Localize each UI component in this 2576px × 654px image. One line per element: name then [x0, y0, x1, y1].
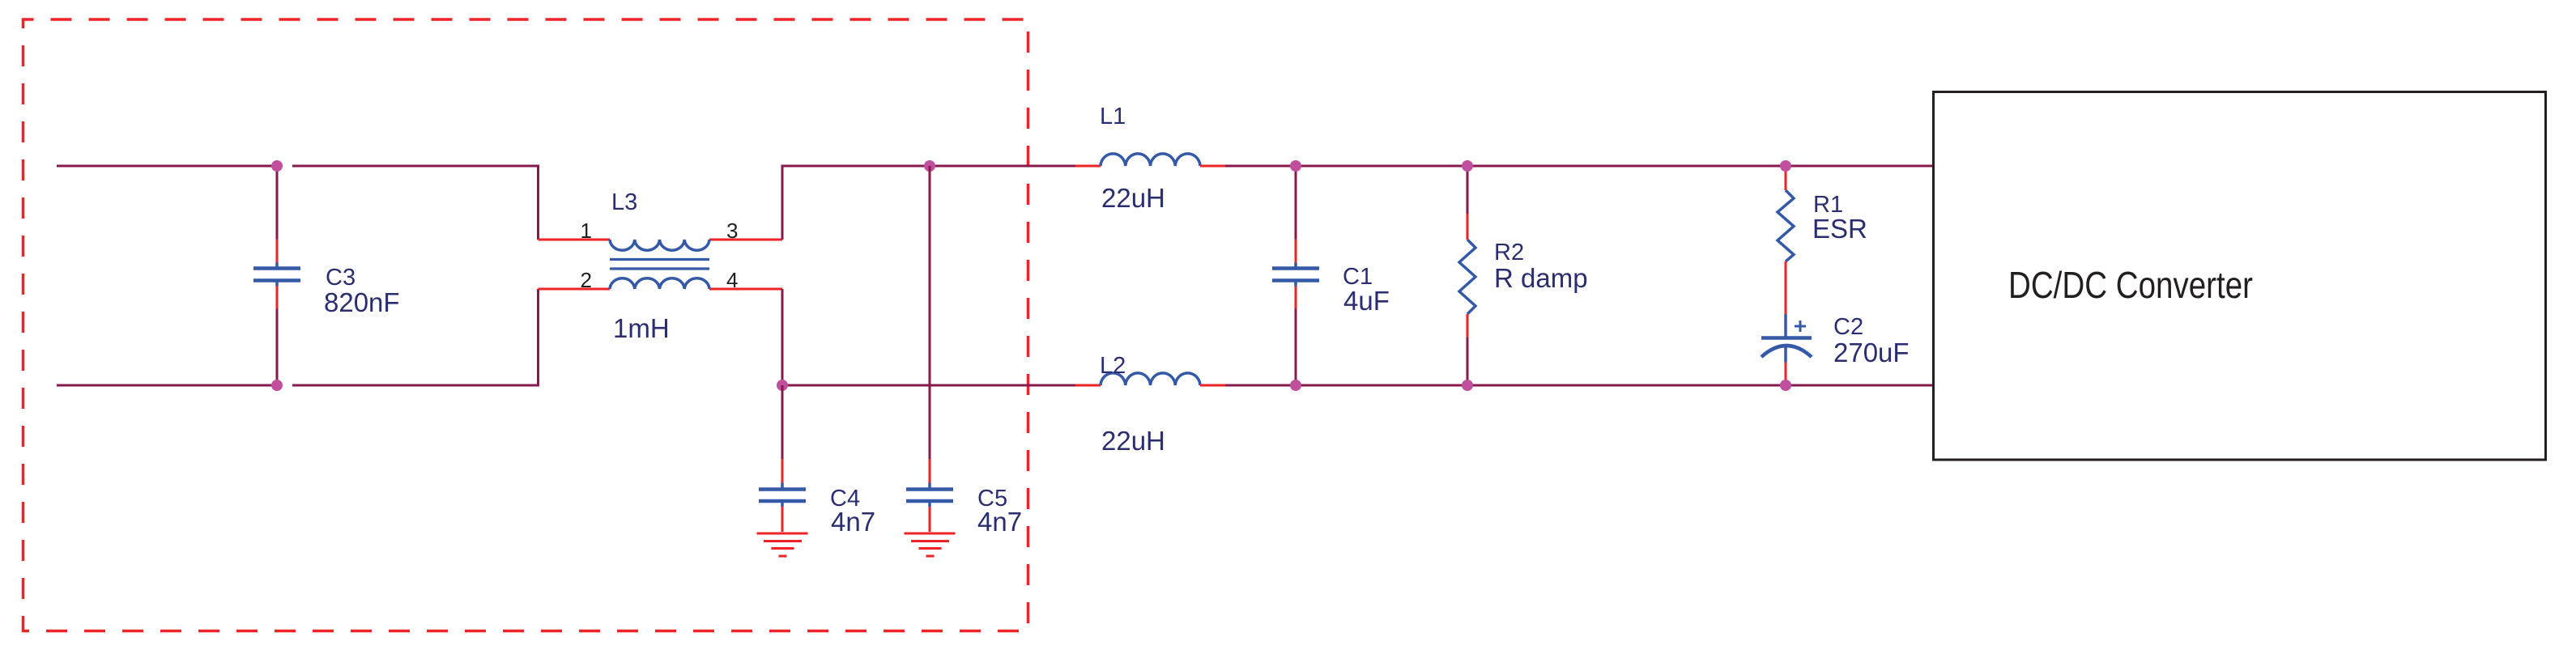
node: C3 top junction [271, 160, 283, 172]
node: R2 bottom junction [1462, 380, 1473, 391]
wire: bottom rail from L2 to DC/DC box [1225, 384, 1933, 387]
L3 bottom winding [610, 278, 709, 289]
L1 left pin wire [1075, 165, 1101, 168]
capacitor C2 (electrolytic) [1761, 314, 1812, 385]
wire: C1 top vertical [1295, 166, 1297, 240]
svg-text:4uF: 4uF [1343, 286, 1390, 316]
svg-text:820nF: 820nF [324, 287, 400, 317]
wire: R2 bottom vertical [1467, 338, 1469, 385]
capacitor C4 [759, 459, 806, 532]
node: R2 top junction [1462, 160, 1473, 172]
svg-text:270uF: 270uF [1833, 338, 1910, 367]
svg-text:L3: L3 [611, 189, 637, 215]
wire: L3 pin4 riser to bottom rail [781, 289, 784, 385]
svg-text:1mH: 1mH [613, 313, 670, 343]
L1 winding [1101, 154, 1200, 166]
node: R1 top junction [1780, 160, 1791, 172]
svg-text:2: 2 [581, 268, 592, 292]
svg-text:L1: L1 [1100, 104, 1126, 130]
capacitor C1 [1272, 240, 1319, 309]
wire: bottom-left rail from input to C3 [57, 384, 277, 387]
L3 pin 3 wire [709, 239, 782, 241]
svg-text:3: 3 [726, 219, 738, 243]
L3 pin 4 wire [709, 288, 782, 291]
node: C3 bottom junction [271, 380, 283, 391]
svg-text:1: 1 [581, 219, 592, 243]
L1 right pin wire [1200, 165, 1225, 168]
wire: top rail from C3 to L3 pin1 riser [292, 166, 539, 240]
wire: L3 pin3 riser to top rail [782, 166, 1075, 240]
wire: C4 vertical from bottom rail [781, 385, 784, 459]
capacitor C3 [253, 240, 300, 309]
ground symbol under C4 [757, 533, 808, 556]
wire: C1 bottom vertical [1295, 309, 1297, 386]
wire: R2 top vertical [1467, 166, 1469, 214]
wire: bottom rail from C3 to L3 pin2 riser [292, 289, 539, 385]
svg-text:22uH: 22uH [1101, 426, 1165, 456]
inductor L1 [1075, 154, 1225, 166]
svg-text:L2: L2 [1100, 353, 1126, 379]
wire: C3 top vertical [276, 166, 279, 240]
node: C5 junction on top rail [924, 160, 935, 172]
svg-text:R damp: R damp [1494, 263, 1588, 293]
ground symbol under C5 [905, 533, 956, 556]
EMI filter boundary red dashed box [23, 19, 1028, 631]
capacitor C5 [906, 459, 953, 532]
wire: top rail from L1 to DC/DC box [1225, 165, 1933, 168]
L2 left pin wire [1075, 384, 1101, 387]
L2 right pin wire [1200, 384, 1225, 387]
wire: C5 vertical from top rail (crosses bottom rail) [929, 166, 931, 459]
resistor R2 [1459, 214, 1475, 338]
svg-text:C2: C2 [1833, 314, 1863, 340]
C2 polarity plus sign [1795, 321, 1806, 332]
svg-text:4n7: 4n7 [977, 507, 1022, 537]
svg-text:4: 4 [726, 268, 738, 292]
svg-text:DC/DC Converter: DC/DC Converter [2008, 264, 2253, 306]
inductor L2 [1075, 373, 1225, 385]
svg-text:R2: R2 [1494, 240, 1524, 265]
wire: bottom rail from C4 node to L2 [782, 384, 1075, 387]
node: C4 junction on bottom rail [777, 380, 788, 391]
DC/DC converter block [1934, 92, 2546, 461]
node: C2 bottom junction [1780, 380, 1791, 391]
svg-text:4n7: 4n7 [831, 507, 875, 537]
transformer L3 (common-mode choke) [539, 240, 783, 289]
L2 winding [1101, 373, 1200, 385]
node: C1 bottom junction [1290, 380, 1301, 391]
node: C1 top junction [1290, 160, 1301, 172]
L3 top winding [610, 240, 709, 250]
svg-text:22uH: 22uH [1101, 183, 1165, 213]
svg-text:ESR: ESR [1812, 214, 1867, 244]
wire: top-left rail from input to C3 [57, 165, 277, 168]
L3 core lines [610, 258, 709, 261]
resistor R1 [1778, 168, 1794, 314]
L3 pin 1 wire [539, 239, 611, 241]
wire: C3 bottom vertical [276, 309, 279, 386]
L3 pin 2 wire [539, 288, 611, 291]
